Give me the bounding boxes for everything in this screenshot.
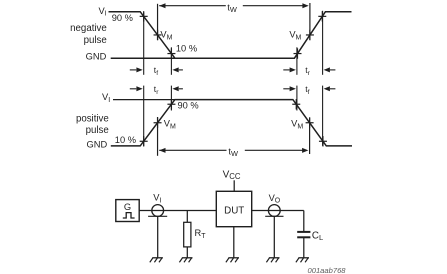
svg-text:positive: positive (76, 113, 109, 124)
svg-text:90 %: 90 % (112, 13, 133, 23)
svg-text:DUT: DUT (224, 206, 244, 217)
svg-text:pulse: pulse (86, 125, 109, 136)
svg-text:GND: GND (87, 140, 108, 150)
svg-text:001aab768: 001aab768 (308, 266, 347, 274)
svg-text:90 %: 90 % (178, 100, 199, 110)
svg-text:negative: negative (70, 23, 107, 34)
svg-text:10 %: 10 % (176, 43, 197, 53)
svg-text:10 %: 10 % (115, 135, 136, 145)
svg-text:G: G (124, 202, 131, 212)
svg-text:GND: GND (86, 51, 107, 61)
svg-text:pulse: pulse (84, 35, 107, 46)
